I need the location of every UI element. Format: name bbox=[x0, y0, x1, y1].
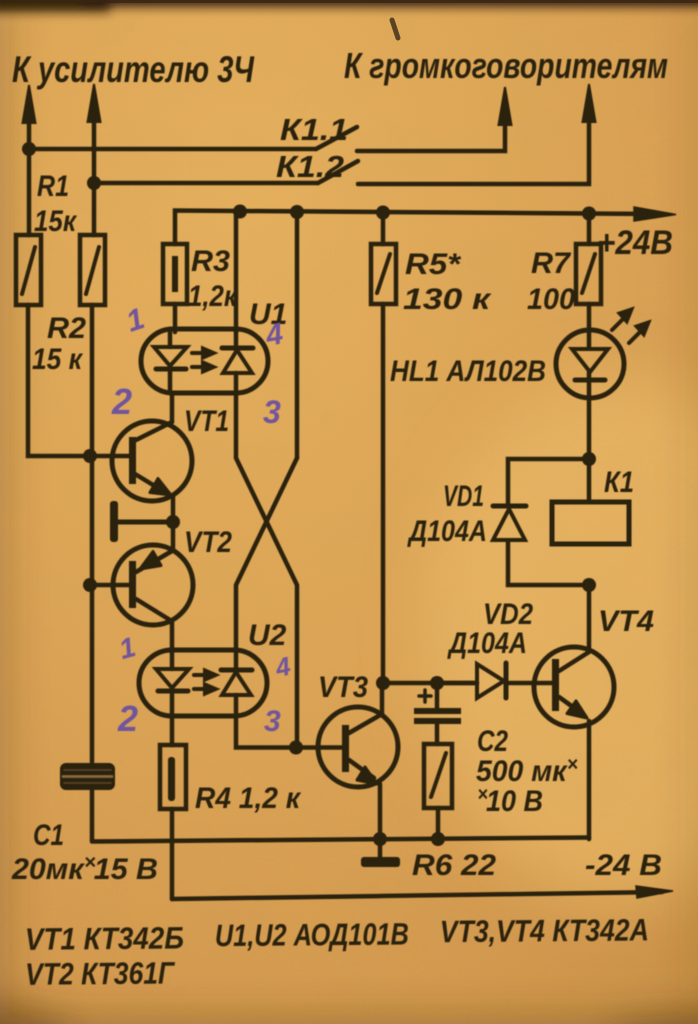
wire relay to VT4 bbox=[587, 585, 592, 651]
chassis ground bottom bbox=[361, 857, 400, 867]
optocoupler U2 bbox=[139, 650, 267, 716]
node junction arrow2/K1.2 bbox=[87, 176, 101, 190]
node VT2 base junction bbox=[83, 578, 97, 592]
pin marks U2 (purple) bbox=[116, 631, 294, 739]
capacitor C2 bbox=[414, 683, 461, 744]
svg-text:U1,U2 АОД101В: U1,U2 АОД101В bbox=[215, 916, 409, 953]
wire VT3 emitter bbox=[378, 784, 383, 857]
wire output arrow 1 bbox=[23, 85, 36, 235]
svg-text:2: 2 bbox=[117, 698, 138, 739]
svg-text:100: 100 bbox=[527, 283, 575, 316]
node rail/U1pin4 bbox=[233, 205, 247, 219]
resistor R6 bbox=[424, 744, 452, 839]
wire -24V rail bbox=[172, 892, 662, 899]
wire +24V rail bbox=[175, 211, 662, 245]
wire arrowhead to loudspeaker 2 bbox=[583, 84, 596, 122]
svg-text:+24В: +24В bbox=[597, 224, 673, 262]
diode VD2 bbox=[437, 663, 506, 698]
svg-text:VT2 КТ361Г: VT2 КТ361Г bbox=[25, 956, 176, 992]
svg-text:-24 В: -24 В bbox=[585, 849, 662, 882]
wire HL1 to relay bbox=[587, 398, 592, 502]
node junction arrow1/K1.1 bbox=[22, 142, 36, 156]
resistor R1 bbox=[16, 235, 41, 305]
svg-text:К1.2: К1.2 bbox=[276, 149, 344, 184]
node emitters bbox=[166, 515, 180, 529]
wire U2 photodiode to VT3 base bbox=[236, 716, 342, 748]
node VD1 bottom bbox=[582, 578, 596, 592]
node VT3 emitter/bus bbox=[373, 832, 387, 846]
resistor R7 bbox=[576, 212, 601, 332]
svg-text:3: 3 bbox=[264, 705, 281, 738]
rail arrowhead +24V bbox=[634, 207, 676, 221]
svg-text:2: 2 bbox=[111, 381, 132, 422]
svg-text:1,2к: 1,2к bbox=[188, 280, 239, 313]
resistor R5 bbox=[371, 212, 396, 683]
svg-text:VT4: VT4 bbox=[598, 605, 654, 638]
wire K1.1 left bbox=[29, 147, 316, 152]
wire VT3 collector bbox=[380, 683, 385, 714]
svg-text:130 к: 130 к bbox=[403, 283, 492, 316]
svg-text:20мк˟15 В: 20мк˟15 В bbox=[11, 853, 158, 886]
svg-text:К громкоговорителям: К громкоговорителям bbox=[344, 45, 668, 86]
wire U1 pin4 to rail bbox=[234, 212, 239, 332]
wire cross column upper bbox=[295, 212, 300, 458]
svg-text:VD1: VD1 bbox=[443, 480, 484, 513]
switch K1.2 arm bbox=[318, 161, 358, 183]
svg-text:˟10 В: ˟10 В bbox=[477, 785, 543, 818]
pin marks U1 (purple) bbox=[111, 302, 286, 430]
wire VT2 collector to U2 bbox=[170, 622, 175, 652]
svg-text:500 мк˟: 500 мк˟ bbox=[476, 755, 578, 788]
svg-text:VT3,VT4 КТ342А: VT3,VT4 КТ342А bbox=[440, 912, 649, 949]
resistor R3 bbox=[163, 244, 187, 304]
node cross/VT3 base bbox=[289, 741, 303, 755]
wire VT4 emitter down bbox=[587, 721, 592, 839]
svg-text:HL1 АЛ102В: HL1 АЛ102В bbox=[390, 355, 546, 388]
svg-text:15 к: 15 к bbox=[32, 343, 84, 376]
node rail/cross-column bbox=[290, 205, 304, 219]
svg-text:C2: C2 bbox=[477, 725, 508, 758]
svg-text:U2: U2 bbox=[248, 619, 287, 652]
svg-text:3: 3 bbox=[263, 394, 281, 430]
svg-text:VT3: VT3 bbox=[318, 671, 368, 704]
svg-text:К1.1: К1.1 bbox=[280, 112, 348, 147]
svg-text:R5*: R5* bbox=[405, 248, 461, 281]
wire output arrow 2 bbox=[88, 84, 101, 235]
resistor R2 bbox=[80, 235, 105, 305]
diode VD1 bbox=[493, 506, 526, 540]
wire VD1 branch bbox=[508, 459, 589, 585]
transistor VT1 bbox=[90, 421, 192, 501]
svg-text:R6 22: R6 22 bbox=[412, 849, 496, 882]
svg-text:К1: К1 bbox=[604, 466, 634, 499]
capacitor C1 bbox=[60, 763, 115, 841]
wire arrowhead to loudspeaker 1 bbox=[499, 87, 512, 125]
wire K1.2 left bbox=[94, 181, 318, 186]
svg-text:C1: C1 bbox=[33, 819, 64, 852]
relay coil K1 bbox=[552, 502, 629, 544]
small smudge top middle bbox=[392, 20, 398, 38]
wire VT1 collector to U1 bbox=[170, 393, 175, 422]
transistor VT2 bbox=[90, 545, 193, 625]
node R6/bus bbox=[431, 832, 445, 846]
top dark bar bbox=[0, 0, 698, 12]
svg-text:15к: 15к bbox=[34, 205, 78, 238]
svg-text:R2: R2 bbox=[47, 312, 86, 345]
node VD1 top bbox=[582, 452, 596, 466]
svg-text:К усилителю 3Ч: К усилителю 3Ч bbox=[12, 49, 255, 90]
wire collector bus to VD2 bbox=[383, 681, 477, 686]
wire K1.2 right bbox=[358, 122, 589, 184]
svg-text:Д104А: Д104А bbox=[446, 627, 527, 660]
svg-text:VT1: VT1 bbox=[184, 405, 229, 438]
wire K1.1 right bbox=[357, 124, 505, 151]
svg-text:Д104А: Д104А bbox=[406, 515, 487, 548]
node VT1 base junction bbox=[83, 449, 97, 463]
wire emitters junction bbox=[171, 496, 176, 549]
wire R3 to U1 bbox=[173, 304, 178, 332]
svg-text:VT1 КТ342Б: VT1 КТ342Б bbox=[25, 920, 184, 956]
LED HL1 bbox=[556, 308, 650, 398]
resistor R4 bbox=[160, 716, 186, 899]
component list bottom bbox=[25, 912, 650, 991]
svg-text:R4 1,2 к: R4 1,2 к bbox=[195, 782, 302, 815]
node C2 top bbox=[430, 676, 444, 690]
switch K1.1 arm bbox=[316, 127, 357, 149]
chassis ground left bbox=[110, 501, 173, 542]
transistor VT4 bbox=[509, 647, 614, 727]
node collector R5 C2 bbox=[376, 676, 390, 690]
svg-text:VT2: VT2 bbox=[184, 526, 232, 559]
wire R2 column down bbox=[90, 305, 95, 762]
svg-text:R3: R3 bbox=[191, 245, 230, 278]
optocoupler U1 bbox=[141, 329, 268, 393]
svg-text:R7: R7 bbox=[531, 247, 571, 280]
svg-text:R1: R1 bbox=[37, 170, 69, 203]
wire crossover bbox=[236, 393, 297, 748]
transistor VT3 bbox=[318, 707, 398, 787]
rail arrowhead -24V bbox=[636, 886, 673, 898]
node rail/R5 bbox=[376, 206, 390, 220]
wire R1 to VT1 base bbox=[28, 305, 90, 456]
node rail/R7 bbox=[582, 207, 596, 221]
wire bottom bus A bbox=[92, 838, 589, 842]
